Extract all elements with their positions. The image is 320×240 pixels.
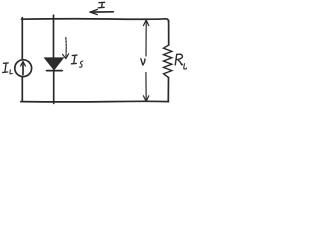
wire bottom	[21, 100, 169, 103]
current arrow I (top)	[90, 9, 113, 14]
wire right top segment	[168, 21, 170, 46]
current arrow I_s	[63, 38, 69, 59]
diode D	[45, 58, 62, 70]
label I_s	[71, 55, 82, 67]
wire diode branch top	[53, 15, 55, 58]
voltage arrow v	[143, 20, 148, 101]
label R_L	[175, 54, 186, 69]
wire left bottom segment	[21, 77, 23, 102]
wire diode branch bottom	[53, 71, 55, 104]
resistor R_L	[164, 45, 172, 78]
wire left top segment	[21, 18, 23, 60]
wire top	[22, 19, 169, 22]
wire right bottom segment	[167, 78, 169, 102]
label I (top)	[98, 2, 104, 8]
label v	[141, 59, 145, 65]
label I_L	[3, 63, 13, 74]
current source I_L	[15, 60, 32, 77]
